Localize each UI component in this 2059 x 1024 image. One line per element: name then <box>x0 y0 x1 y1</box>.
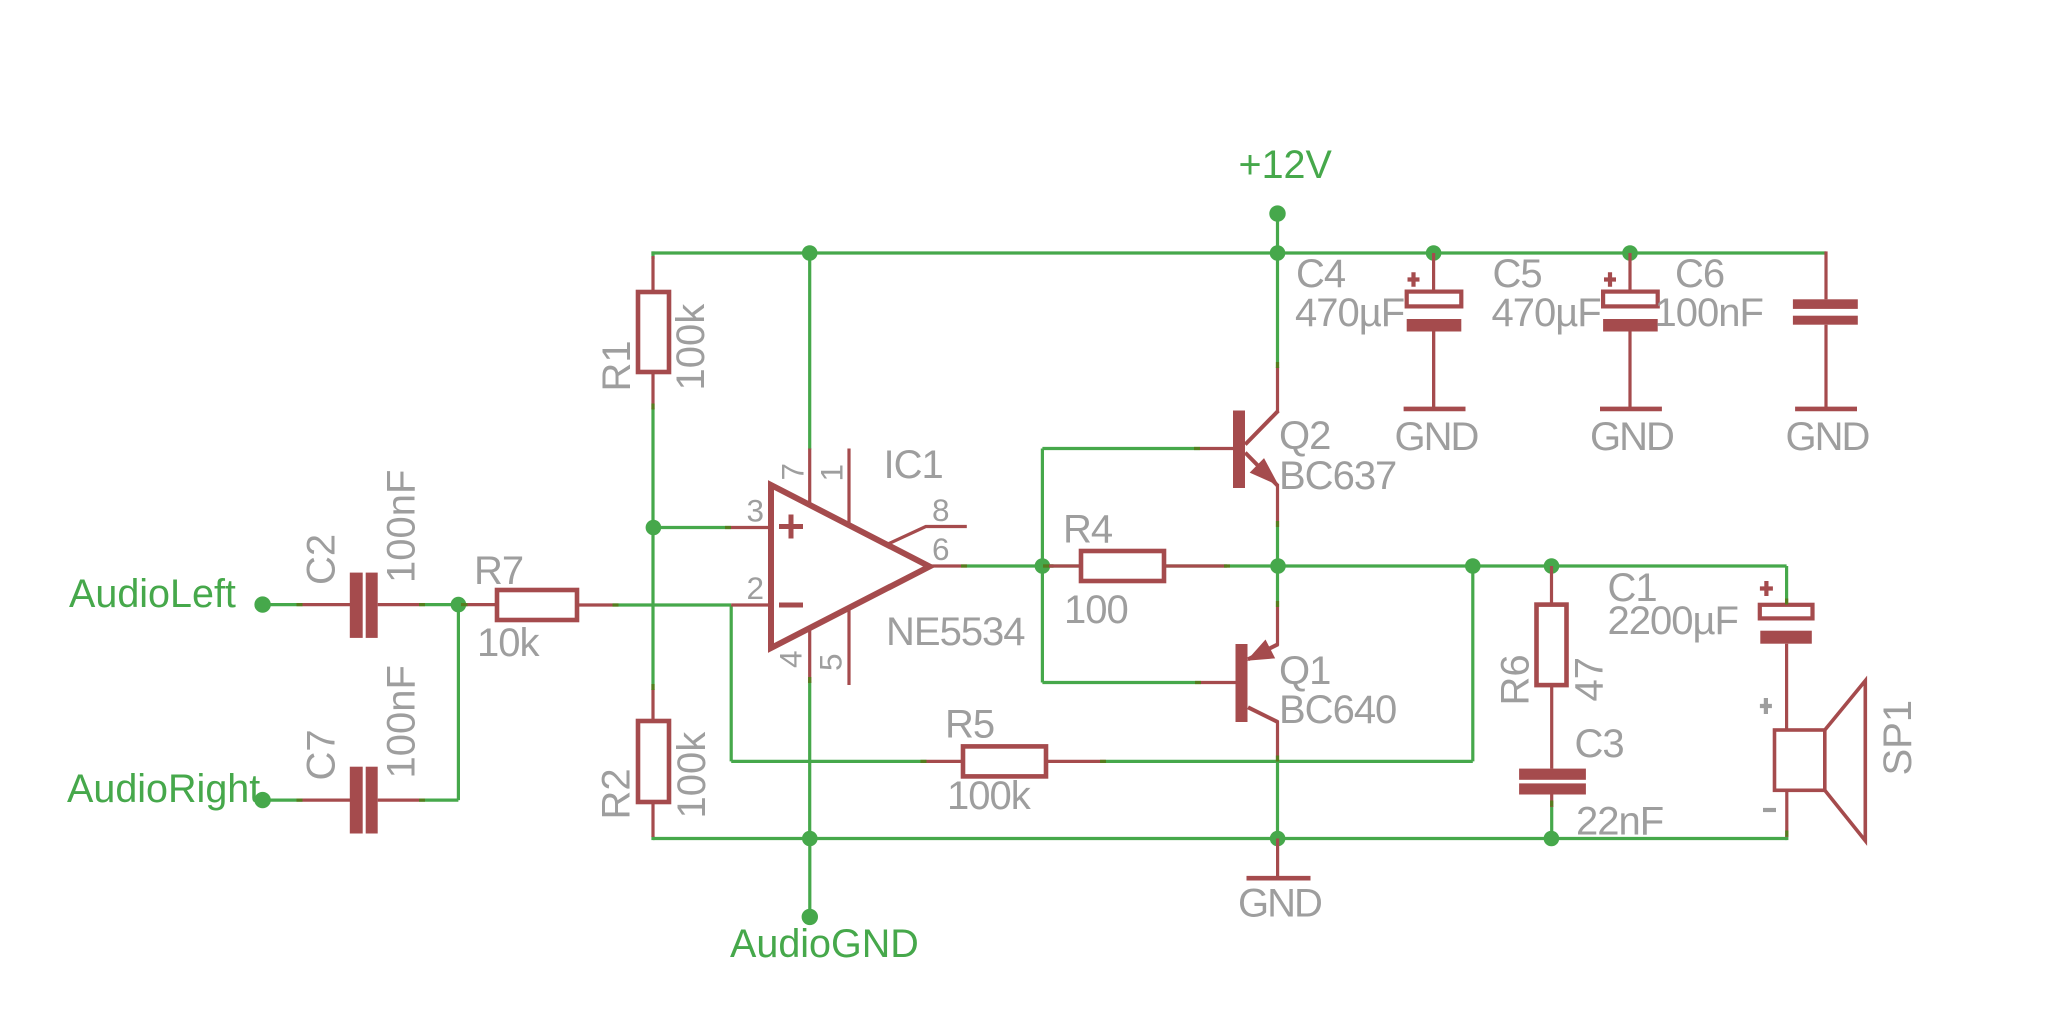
wire: V+ rail (top horizontal net, +12V) <box>651 251 1826 254</box>
wire overlap ticks (net over pin ends) <box>297 603 303 606</box>
transistor Q2 BC637 NPN (upper output) <box>1233 411 1245 489</box>
svg-text:+12V: +12V <box>1239 143 1333 187</box>
net pin: AudioGND <box>802 909 818 925</box>
svg-text:100nF: 100nF <box>380 470 424 583</box>
svg-text:4: 4 <box>773 651 809 668</box>
wire: IC1 pin 4 down to AudioGND rail <box>808 682 811 839</box>
wire: R1 bottom to node A (pin 3 divider node) <box>651 409 654 691</box>
svg-text:BC637: BC637 <box>1279 454 1396 498</box>
svg-text:C7: C7 <box>300 729 344 780</box>
wire: AudioGND rail (bottom horizontal net) <box>653 837 1787 840</box>
svg-text:1: 1 <box>814 464 850 481</box>
wire: V+ rail to Q2 collector <box>1276 253 1279 368</box>
speaker minus marking <box>1763 808 1776 812</box>
svg-text:NE5534: NE5534 <box>886 610 1025 654</box>
svg-text:R4: R4 <box>1063 508 1113 552</box>
svg-text:SP1: SP1 <box>1876 700 1920 776</box>
wire: C3 bottom to AudioGND rail <box>1550 806 1553 839</box>
svg-text:C5: C5 <box>1493 252 1542 296</box>
junction: output node / Q2 emitter / Q1 emitter / R4 right <box>1270 558 1286 574</box>
power pin: +12V <box>1269 205 1285 221</box>
resistor R2 100k (vertical) <box>651 689 654 721</box>
svg-text:470µF: 470µF <box>1492 291 1601 335</box>
pin 6 lead (output) <box>930 564 967 567</box>
svg-text:GND: GND <box>1395 415 1478 459</box>
wire: feedback riser to output node <box>1471 566 1474 761</box>
svg-text:100k: 100k <box>670 731 714 819</box>
junction: V+ rail / +12V pin / Q2 collector <box>1270 245 1286 261</box>
svg-text:10k: 10k <box>477 621 540 665</box>
label C5 polarity plus <box>1604 272 1616 287</box>
wire: to Q2 base <box>1042 447 1199 450</box>
svg-text:R2: R2 <box>595 768 639 819</box>
op-amp minus input marker <box>779 603 803 608</box>
pin 3 lead (non-inverting input) <box>731 526 771 529</box>
net pin: AudioLeft <box>254 596 270 612</box>
wire: V+ rail left drop to R1 <box>651 251 654 259</box>
wire: output corner down to C1 plus plate <box>1785 566 1788 604</box>
speaker plus marking <box>1760 698 1772 714</box>
svg-text:Q2: Q2 <box>1279 414 1330 458</box>
junction: C2 / C7 / R7 input node <box>451 597 467 613</box>
svg-text:47: 47 <box>1568 657 1612 702</box>
wire: +12V pin stub <box>1276 214 1279 253</box>
op-amp plus input marker <box>779 515 803 539</box>
Q2 emitter arrow <box>1251 460 1276 484</box>
wire: R2 bottom corner <box>651 836 654 840</box>
svg-text:5: 5 <box>813 654 849 671</box>
svg-text:7: 7 <box>775 463 811 480</box>
pin 5 lead (balance, stub) <box>847 608 850 685</box>
capacitor C7 100nF (series, AudioRight) <box>303 798 351 801</box>
svg-text:GND: GND <box>1238 882 1321 926</box>
svg-text:R1: R1 <box>595 340 639 391</box>
svg-text:AudioGND: AudioGND <box>730 922 919 966</box>
wire: feedback to R5 left <box>731 760 926 763</box>
junction: V+ rail / C5 <box>1622 245 1638 261</box>
pin 4 lead (V-) <box>808 627 811 683</box>
speaker SP1 (horn) <box>1825 681 1866 841</box>
capacitor C4 470uF polarized (V+ decoupling) <box>1432 253 1435 292</box>
resistor R7 10k (horizontal) <box>466 603 497 606</box>
svg-text:C6: C6 <box>1675 252 1724 296</box>
wire: R5 right to riser <box>1106 760 1473 763</box>
svg-text:22nF: 22nF <box>1576 800 1663 844</box>
wire: AudioRight pin to C7 <box>263 798 303 801</box>
svg-text:GND: GND <box>1786 415 1869 459</box>
junction: AudioGND rail / Q1 collector / GND symbol <box>1270 831 1286 847</box>
ground symbol (C4) <box>1432 332 1435 408</box>
svg-text:IC1: IC1 <box>884 443 943 487</box>
wire: speaker bottom corner to AudioGND rail <box>1785 836 1788 840</box>
wire: C7 right lead to riser <box>419 798 458 801</box>
pin 7 lead (V+) <box>808 449 811 506</box>
svg-text:100nF: 100nF <box>1655 291 1763 335</box>
svg-text:3: 3 <box>747 493 764 529</box>
svg-text:BC640: BC640 <box>1279 688 1396 732</box>
svg-text:100nF: 100nF <box>380 665 424 778</box>
svg-text:R6: R6 <box>1494 654 1538 705</box>
ground symbol (C6) <box>1795 407 1857 412</box>
wire: output node down to Q1 emitter <box>1276 566 1279 607</box>
capacitor C3 22nF (Zobel) <box>1519 769 1586 780</box>
svg-text:Q1: Q1 <box>1279 649 1330 693</box>
svg-text:R7: R7 <box>474 549 523 593</box>
svg-text:R5: R5 <box>945 703 994 747</box>
speaker bottom lead <box>1785 790 1788 837</box>
svg-text:100k: 100k <box>947 774 1032 818</box>
op-amp IC1 NE5534 (triangle body) <box>771 485 930 648</box>
svg-text:100: 100 <box>1064 588 1128 632</box>
wire: node A to IC1 pin 3 <box>653 526 731 529</box>
speaker SP1 (box) <box>1775 730 1825 790</box>
junction: V+ rail / pin 7 riser <box>802 245 818 261</box>
label C1 polarity plus <box>1760 581 1773 596</box>
svg-text:C3: C3 <box>1575 722 1624 766</box>
capacitor C5 470uF polarized (V+ decoupling) <box>1628 253 1631 292</box>
ground symbol (C5) <box>1600 407 1662 412</box>
junction: output node / R6 <box>1544 558 1560 574</box>
svg-text:C2: C2 <box>300 534 344 585</box>
wire: to Q1 base <box>1042 681 1200 684</box>
net pin: AudioRight <box>254 792 270 808</box>
svg-text:6: 6 <box>932 531 949 567</box>
svg-text:AudioLeft: AudioLeft <box>69 572 236 616</box>
resistor R1 100k (vertical) <box>651 256 654 292</box>
resistor R5 100k (horizontal) <box>926 760 963 763</box>
junction: AudioGND rail / C3 <box>1544 831 1560 847</box>
junction: output node / R4 left / base riser <box>1035 558 1051 574</box>
pin 1 lead (balance, stub) <box>847 449 850 526</box>
Q1 emitter arrow <box>1249 641 1274 659</box>
transistor Q1 BC640 PNP (lower output) <box>1236 644 1248 722</box>
svg-text:2200µF: 2200µF <box>1608 599 1738 643</box>
svg-text:8: 8 <box>932 492 949 528</box>
capacitor C1 2200uF polarized (speaker coupling) <box>1760 605 1813 619</box>
junction: AudioGND rail / pin stub / pin 4 <box>802 831 818 847</box>
wire: feedback drop from pin 2 net <box>730 605 733 761</box>
svg-text:470µF: 470µF <box>1295 291 1404 335</box>
resistor R4 100 (horizontal) <box>1049 564 1081 567</box>
wire: C2 to R7 (junction node) <box>419 603 468 606</box>
wire: AudioLeft pin to C2 <box>263 603 303 606</box>
svg-text:2: 2 <box>747 570 764 606</box>
junction: node A divider to pin 3 <box>646 520 662 536</box>
pin 2 lead (inverting input) <box>731 603 771 606</box>
capacitor C6 100nF (V+ decoupling) <box>1824 251 1827 299</box>
wire: Q2 emitter to output node <box>1276 527 1279 566</box>
capacitor C2 100nF (series, AudioLeft) <box>303 603 351 606</box>
resistor R6 47 (vertical) <box>1550 566 1553 605</box>
junction: V+ rail / C4 <box>1426 245 1442 261</box>
wire: riser C7 node up to C2/R7 node <box>457 605 460 801</box>
wire: AudioGND pin stub <box>808 839 811 917</box>
svg-text:100k: 100k <box>669 303 713 391</box>
wire: base drive riser (pin 6 node to Q2/Q1 bases) <box>1041 449 1044 683</box>
svg-text:GND: GND <box>1590 415 1673 459</box>
wire: Q1 collector to AudioGND rail <box>1276 761 1279 838</box>
wire: IC1 pin 6 output to C1 corner <box>967 564 1787 567</box>
pin 8 lead (comp, stub) <box>889 527 967 544</box>
wire: riser from V+ rail to IC1 pin 7 <box>808 253 811 450</box>
svg-text:C4: C4 <box>1296 252 1346 296</box>
ground symbol (output stage) <box>1276 839 1279 877</box>
svg-text:AudioRight: AudioRight <box>67 767 260 811</box>
wire: R7 to IC1 pin 2 (inverting input net) <box>613 603 732 606</box>
junction: output node / feedback riser <box>1465 558 1481 574</box>
label C4 polarity plus <box>1408 272 1420 287</box>
